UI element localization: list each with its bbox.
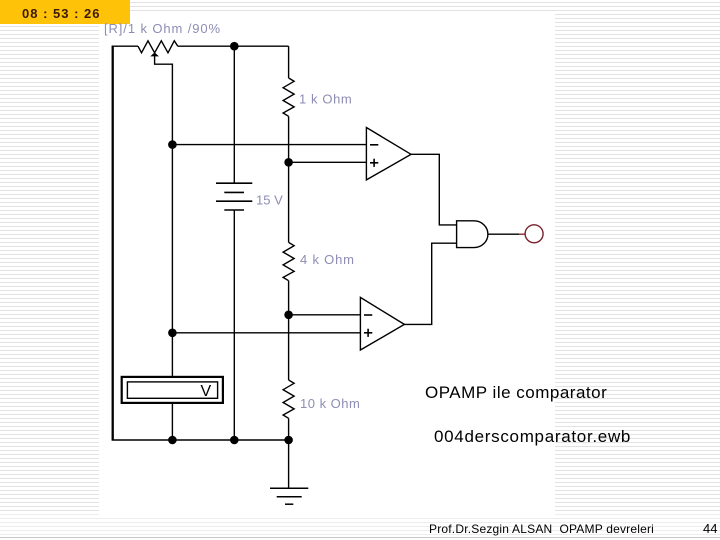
- wire left border: [112, 46, 114, 440]
- wire gate output: [488, 233, 525, 235]
- probe indicator (red circle): [525, 225, 543, 243]
- svg-text:V: V: [201, 383, 212, 400]
- wire noninverting input opamp U1: [289, 161, 367, 163]
- title text: [425, 383, 607, 403]
- op-amp U1: [366, 128, 411, 180]
- footer text: [429, 522, 654, 536]
- label R2 value: [300, 252, 355, 267]
- resistor R3 10 k Ohm: [283, 380, 294, 418]
- wire R3 to ground node: [288, 418, 290, 440]
- ground: [270, 488, 308, 504]
- wire battery bottom: [233, 210, 235, 440]
- voltmeter V: [122, 377, 223, 403]
- svg-text:4 k Ohm: 4 k Ohm: [300, 252, 355, 267]
- node dot C (288.6,314.8): [284, 311, 293, 320]
- wire top left: [112, 45, 138, 47]
- svg-text:10 k Ohm: 10 k Ohm: [300, 396, 360, 411]
- node dot (288.6,440): [284, 436, 293, 445]
- svg-text:15 V: 15 V: [256, 193, 283, 208]
- wire pot to node A: [178, 45, 289, 47]
- svg-text:1 k Ohm: 1 k Ohm: [299, 92, 352, 107]
- timer box: [0, 0, 130, 24]
- wire battery top: [233, 46, 235, 183]
- node dot (172.4,440): [168, 436, 177, 445]
- wire noninverting input opamp U2: [172, 332, 360, 334]
- svg-text:[R]/1 k Ohm /90%: [R]/1 k Ohm /90%: [104, 21, 221, 36]
- wire voltmeter bottom: [171, 403, 173, 440]
- node dot (172.4,332.8): [168, 329, 177, 338]
- resistor R1 1 k Ohm: [283, 78, 294, 116]
- label battery value: [256, 193, 283, 208]
- wire wiper down to voltmeter: [171, 145, 173, 377]
- wire inverting input opamp U2: [289, 314, 361, 316]
- wire ground stem: [288, 440, 290, 488]
- bottom fade band: [0, 512, 720, 537]
- wire node C to R3: [288, 315, 290, 380]
- node dot A (234,46): [230, 42, 239, 51]
- wire R1 to node B: [288, 116, 290, 162]
- potentiometer R 1k 90%: [138, 41, 178, 53]
- resistor R2 4 k Ohm: [283, 242, 294, 280]
- node dot (234.3,440): [230, 436, 239, 445]
- wire right branch top: [288, 46, 290, 78]
- label R3 value: [300, 396, 360, 411]
- label R1 value: [299, 92, 352, 107]
- white circuit image area: [99, 11, 555, 518]
- node dot B (288.6,162.3): [284, 158, 293, 167]
- wire node B to R2: [288, 162, 290, 242]
- label pot value: [104, 21, 221, 36]
- battery 15V: [216, 183, 252, 210]
- wire bottom bus: [112, 439, 289, 441]
- wire U1 output: [411, 154, 457, 225]
- pot wiper arrow: [150, 52, 172, 144]
- filename text: [434, 427, 631, 447]
- AND gate U3: [457, 221, 488, 248]
- page number: [703, 521, 717, 536]
- node dot (172,144.6): [168, 140, 177, 149]
- footer separator line: [0, 537, 720, 538]
- wire U2 output: [404, 243, 456, 324]
- wire inverting input opamp U1: [172, 144, 366, 146]
- wire R2 to node C: [288, 281, 290, 315]
- op-amp U2: [360, 297, 404, 350]
